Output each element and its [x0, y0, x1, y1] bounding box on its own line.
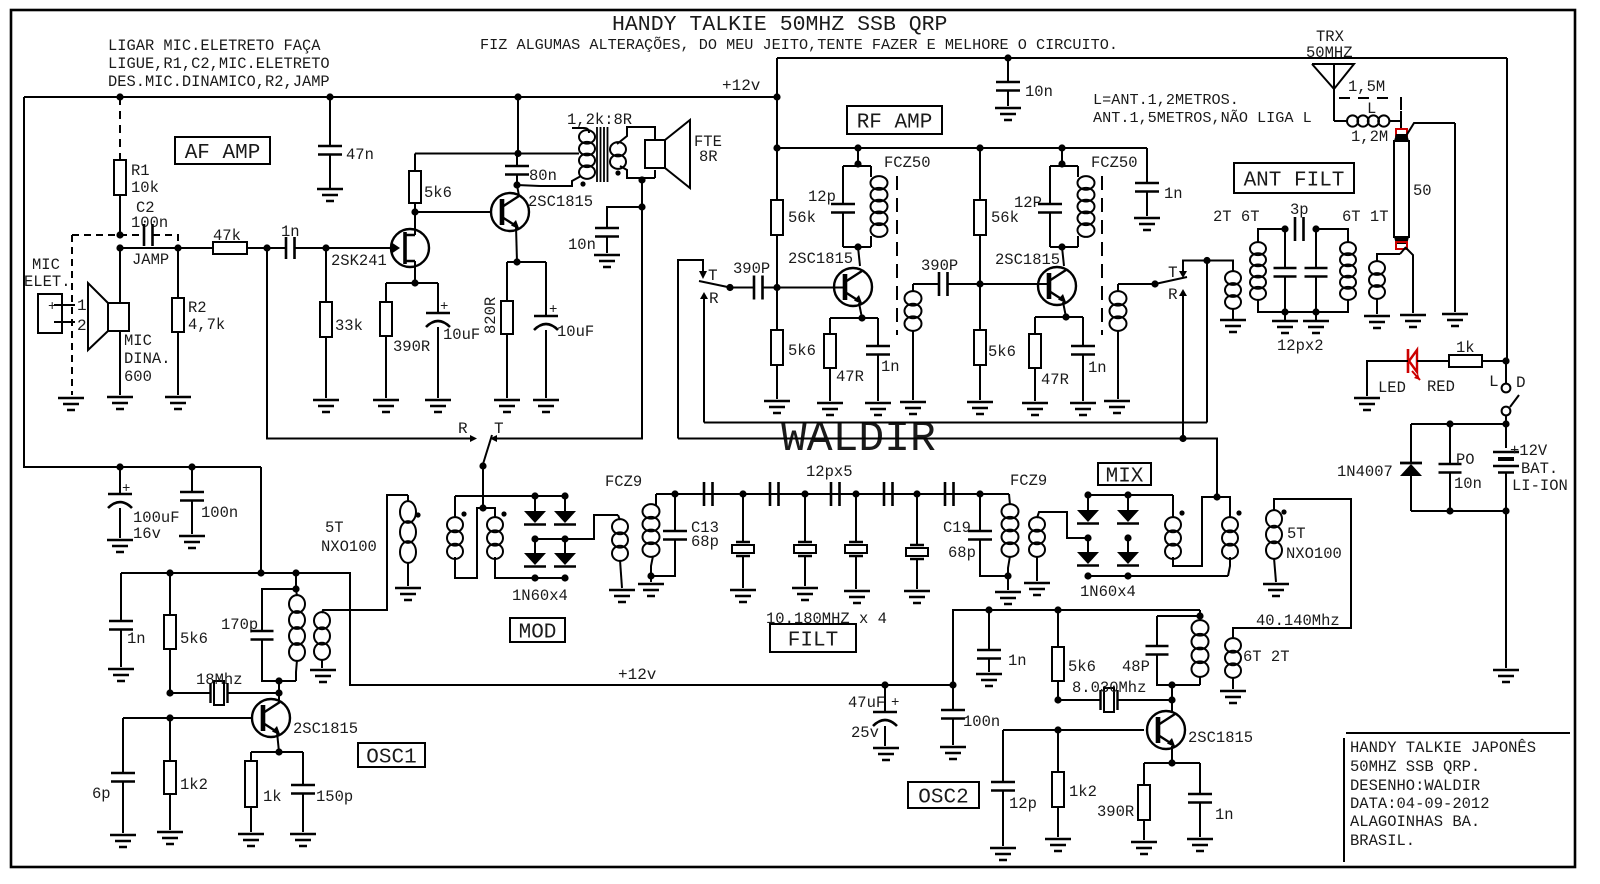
svg-text:1n: 1n [1088, 359, 1107, 377]
svg-text:AF AMP: AF AMP [185, 142, 261, 165]
svg-text:5T: 5T [1287, 525, 1306, 543]
wire emitter rail2 [1035, 316, 1083, 318]
label 10.180MHZ x 4 [766, 610, 887, 628]
label C2 [131, 199, 168, 232]
OSC1 box [358, 743, 425, 770]
capacitor 10n top [996, 54, 1053, 106]
svg-text:C19: C19 [943, 519, 971, 537]
switch S3 blade [479, 435, 492, 470]
svg-text:R: R [1168, 286, 1178, 304]
svg-text:6T 2T: 6T 2T [1243, 648, 1290, 666]
wire sec2 out [1118, 283, 1155, 285]
RF rail wire [777, 147, 1147, 149]
OSC2 tank [1146, 616, 1201, 685]
svg-text:50MHZ SSB QRP.: 50MHZ SSB QRP. [1350, 758, 1480, 776]
wire 1k right [1482, 360, 1506, 362]
svg-text:56k: 56k [788, 209, 816, 227]
diode D1 [524, 496, 546, 525]
ground 5T osc2 [1263, 584, 1289, 596]
label 12P tank2 [1014, 194, 1042, 212]
wire LED to 1k [1417, 360, 1449, 362]
ground 33k [313, 400, 339, 412]
subtitle text [480, 36, 1118, 54]
resistor 820R [501, 262, 513, 398]
svg-text:390P: 390P [921, 257, 958, 275]
node ring1 tr [561, 492, 568, 499]
RF AMP box [847, 106, 942, 135]
AF AMP box [175, 137, 270, 165]
ground 390R osc2 [1131, 842, 1157, 854]
label 6T 1T [1342, 208, 1389, 226]
node 47uF top [881, 681, 888, 688]
svg-text:1k: 1k [1456, 339, 1475, 357]
svg-text:5k6: 5k6 [788, 342, 816, 360]
node emitter AF [513, 258, 520, 265]
svg-text:1: 1 [77, 297, 87, 315]
label 2SC1815 OSC2 [1188, 729, 1253, 747]
svg-text:47R: 47R [836, 368, 864, 386]
node emitter1 [858, 314, 865, 321]
wire osc2 collector node [1171, 685, 1173, 712]
label 5T NXO100 osc1 [321, 519, 377, 556]
svg-text:ANT FILT: ANT FILT [1244, 170, 1345, 193]
svg-text:12px2: 12px2 [1277, 337, 1324, 355]
ground 6p [110, 835, 136, 847]
svg-text:4,7k: 4,7k [188, 316, 225, 334]
node drain [411, 208, 418, 215]
capacitor 1n osc1 [109, 573, 146, 667]
node fcz9-2 bottom [1004, 572, 1011, 579]
crystal X1 18Mhz [170, 671, 279, 705]
MIX ring bottom rail [1088, 575, 1228, 577]
wire S2T down [1206, 261, 1208, 423]
transistor Q1 2SK241 [391, 229, 429, 267]
label 1,2M [1351, 128, 1388, 146]
label C13 68p [691, 519, 719, 551]
node ring1 mr [561, 535, 568, 542]
ground coax bottom [1400, 315, 1426, 327]
label 1N60x4 mod [512, 587, 568, 605]
ground 820R [494, 400, 520, 412]
svg-text:100n: 100n [201, 504, 238, 522]
capacitor 390P in1 [730, 260, 777, 300]
svg-text:47k: 47k [213, 227, 241, 245]
label FCZ50 1 [884, 154, 931, 172]
node C19 top [976, 490, 983, 497]
FILT box [770, 624, 856, 653]
node osc1 rail 261 [257, 569, 264, 576]
node rail 858 [854, 144, 861, 151]
svg-text:OSC2: OSC2 [918, 787, 968, 810]
capacitor 10uF source [426, 283, 480, 398]
ground 10uF source [425, 400, 451, 412]
FCZ50 tank2 [1038, 166, 1095, 247]
ground 5k6 RF2 [967, 402, 993, 414]
transformer T1 primary [540, 128, 595, 186]
node osc2 rail 989 [985, 606, 992, 613]
svg-text:BRASIL.: BRASIL. [1350, 832, 1415, 850]
svg-text:2SK241: 2SK241 [331, 252, 387, 270]
node ring2 ml [1084, 534, 1091, 541]
ground 1k osc1 [238, 834, 264, 846]
svg-text:6p: 6p [92, 785, 111, 803]
ground sec2 [1104, 401, 1130, 413]
title block frame [1344, 733, 1570, 862]
crystal X6 8.030Mhz [1054, 679, 1172, 712]
svg-text:T: T [1168, 264, 1178, 282]
note mic wiring text [108, 37, 330, 91]
ground 2T [1220, 320, 1246, 332]
node PO bottom [1446, 507, 1453, 514]
wire collector Q4 [1062, 247, 1064, 266]
svg-text:+: + [549, 302, 557, 318]
svg-text:1,2M: 1,2M [1351, 128, 1388, 146]
node ring2 br [1124, 572, 1131, 579]
svg-text:1k2: 1k2 [180, 776, 208, 794]
label 40.140Mhz [1256, 612, 1340, 630]
resistor R1 [114, 97, 126, 235]
node JAMP top [116, 231, 123, 238]
svg-text:3p: 3p [1290, 201, 1309, 219]
wire to MIX tap [1183, 439, 1217, 498]
svg-text:DATA:04-09-2012: DATA:04-09-2012 [1350, 795, 1490, 813]
svg-text:1k: 1k [263, 788, 282, 806]
svg-text:FIZ ALGUMAS ALTERAÇÕES, DO MEU: FIZ ALGUMAS ALTERAÇÕES, DO MEU JEITO,TEN… [480, 36, 1118, 54]
switch S1 R contact [700, 290, 719, 423]
svg-text:2: 2 [77, 317, 87, 335]
node osc1 rail 296 [292, 569, 299, 576]
node rail 980 [976, 144, 983, 151]
svg-text:1N4007: 1N4007 [1337, 463, 1393, 481]
label L coil [1367, 100, 1376, 118]
wire coax bottom down [1406, 248, 1413, 313]
mic electret dashed wire [72, 235, 120, 395]
node osc2 xtal right [1168, 696, 1175, 703]
wire source [414, 261, 416, 283]
crystal X2 [732, 494, 754, 588]
ground 47R RF2 [1022, 403, 1048, 415]
svg-text:MIC: MIC [32, 256, 60, 274]
wire 777 vertical [776, 58, 778, 200]
coax top red mark [1396, 129, 1407, 136]
svg-text:1n: 1n [881, 358, 900, 376]
switch LD [1502, 361, 1519, 448]
diode 1N4007 [1400, 463, 1422, 511]
transistor Q6 2SC1815 OSC2 [1147, 711, 1185, 749]
FCZ50 sec1 coil [905, 284, 922, 400]
svg-text:390P: 390P [733, 260, 770, 278]
svg-text:L: L [1489, 373, 1499, 391]
svg-text:10n: 10n [1025, 83, 1053, 101]
svg-text:150p: 150p [316, 788, 353, 806]
wire L to coax [1400, 111, 1402, 130]
diode D5 [1077, 495, 1099, 524]
label 170p [221, 616, 258, 634]
resistor 390R osc2 [1097, 763, 1150, 840]
transformer T1 secondary [610, 127, 655, 178]
capacitor 10uF emitter [534, 262, 594, 398]
node xtal1 top [739, 490, 746, 497]
wire to TR switch [267, 248, 470, 439]
node mix tap [1213, 493, 1220, 500]
svg-text:100n: 100n [963, 713, 1000, 731]
capacitor 3p [1281, 217, 1319, 241]
node osc1 fb top [292, 585, 299, 592]
wire osc1 base [123, 717, 252, 719]
node 33k top [322, 244, 329, 251]
wire tank1 top [857, 148, 859, 166]
svg-text:1n: 1n [1164, 185, 1183, 203]
svg-text:5k6: 5k6 [1068, 658, 1096, 676]
svg-text:FCZ50: FCZ50 [884, 154, 931, 172]
MOD xfmr in winding [400, 495, 421, 586]
label 1,2k:8R [567, 111, 632, 129]
svg-text:LI-ION: LI-ION [1512, 477, 1568, 495]
svg-text:10n: 10n [1454, 475, 1482, 493]
capacitor series c1 [704, 482, 713, 506]
capacitor 1n e1 [866, 318, 900, 401]
coil 6T left [1250, 242, 1266, 300]
OSC1 xfmr secondary [314, 610, 387, 668]
node osc2 collector top [1168, 681, 1175, 688]
node osc2 rail 1058 [1054, 606, 1061, 613]
label MIC ELET [24, 256, 71, 291]
node 1k right [1502, 357, 1509, 364]
svg-text:FCZ50: FCZ50 [1091, 154, 1138, 172]
svg-text:DINA.: DINA. [124, 350, 171, 368]
wire R line [704, 422, 1207, 424]
switch S2 R contact [1168, 286, 1187, 439]
svg-text:50MHZ: 50MHZ [1306, 44, 1353, 62]
svg-text:D: D [1516, 374, 1526, 392]
svg-text:10n: 10n [568, 236, 596, 254]
label 2SC1815 OSC1 [293, 720, 358, 738]
node osc1 xtal node [275, 689, 282, 696]
ground R2 [165, 397, 191, 409]
svg-text:5k6: 5k6 [180, 630, 208, 648]
wire osc2 base [1003, 729, 1144, 731]
ground 10uF emitter [533, 400, 559, 412]
resistor 47R RF2 [1029, 317, 1069, 401]
transistor Q4 2SC1815 RF2 [1038, 267, 1076, 305]
svg-text:12px5: 12px5 [806, 463, 853, 481]
svg-text:+12v: +12v [618, 666, 657, 684]
FILT rail wire [656, 493, 1009, 495]
ground 1n osc2e [1187, 839, 1213, 851]
svg-text:1k2: 1k2 [1069, 783, 1097, 801]
ground mod in [395, 588, 421, 600]
resistor 47R RF1 [824, 318, 864, 401]
svg-text:NXO100: NXO100 [1286, 545, 1342, 563]
svg-text:LIGUE,R1,C2,MIC.ELETRETO: LIGUE,R1,C2,MIC.ELETRETO [108, 55, 330, 73]
coil 5T NXO100 osc2 [1266, 509, 1287, 582]
ground fcz9-1 pri [609, 590, 635, 602]
ground X3 [792, 588, 818, 600]
capacitor 1n osc2 [977, 610, 1027, 672]
ground 6T 2T [1220, 691, 1246, 703]
wire mod tap [482, 466, 484, 508]
label 48P [1122, 658, 1150, 676]
transistor Q5 2SC1815 OSC1 [252, 699, 290, 737]
node primary bottom [580, 181, 585, 186]
node ring1 bl [531, 574, 538, 581]
svg-text:HANDY TALKIE 50MHZ SSB QRP: HANDY TALKIE 50MHZ SSB QRP [612, 13, 947, 37]
svg-text:390R: 390R [393, 338, 430, 356]
wire emitter rail1 [830, 317, 878, 319]
wire osc1 emitter [277, 732, 279, 752]
+12v rail wire [24, 77, 777, 97]
capacitor C19 68p [968, 494, 1008, 576]
ground tank cap1 [1272, 312, 1298, 333]
svg-text:FCZ9: FCZ9 [1010, 472, 1047, 490]
wire osc2 emitter [1171, 746, 1173, 762]
svg-text:JAMP: JAMP [132, 251, 169, 269]
ground X2 [730, 590, 756, 602]
svg-text:600: 600 [124, 368, 152, 386]
ground 1k2 osc2 [1045, 839, 1071, 851]
ground mic dina [107, 397, 133, 409]
ground fcz9-1 sec [638, 576, 664, 596]
wire primary-collector [517, 185, 540, 186]
capacitor 6p [92, 718, 135, 833]
svg-text:+12V: +12V [1510, 442, 1548, 460]
svg-text:FILT: FILT [788, 630, 838, 653]
capacitor series c5 [945, 482, 954, 506]
svg-text:2T 6T: 2T 6T [1213, 208, 1260, 226]
label FTE 8R [694, 133, 722, 166]
ground 1k2 osc1 [157, 832, 183, 844]
svg-text:MOD: MOD [519, 622, 557, 645]
crystal X5 [906, 494, 928, 589]
wire collector Q3 [858, 247, 860, 266]
MOD ring mid rail [535, 515, 618, 539]
svg-text:FCZ9: FCZ9 [605, 473, 642, 491]
node fcz9-1 bottom [647, 572, 654, 579]
svg-text:2SC1815: 2SC1815 [293, 720, 358, 738]
ground mic elet [58, 398, 84, 410]
ground 5k6 RF1 [764, 401, 790, 413]
+12v bottom rail [350, 666, 953, 685]
svg-text:50: 50 [1413, 182, 1432, 200]
watermark WALDIR [781, 414, 936, 463]
label 2SC1815 RF2 [995, 251, 1060, 269]
node base1 [773, 284, 780, 291]
svg-text:1N60x4: 1N60x4 [512, 587, 568, 605]
svg-text:1,2k:8R: 1,2k:8R [567, 111, 632, 129]
ground X5 [904, 591, 930, 603]
node 18mhz left [166, 689, 173, 696]
node ring2 bl [1084, 572, 1091, 579]
OSC1 xfmr primary [289, 589, 305, 681]
node rail 1062 [1058, 144, 1065, 151]
svg-text:820R: 820R [482, 297, 500, 334]
label PO 10n [1454, 451, 1482, 493]
node tank2 top [1058, 160, 1065, 167]
svg-text:NXO100: NXO100 [321, 538, 377, 556]
node osc2 emitter [1168, 759, 1175, 766]
coil 2T [1225, 271, 1241, 319]
svg-text:100n: 100n [131, 214, 168, 232]
diode D6 [1077, 538, 1099, 566]
capacitor 1n e2 [1071, 317, 1107, 401]
node osc1 emitter [275, 748, 282, 755]
diode D8 [1117, 538, 1139, 566]
wire osc1 emitter rail [251, 751, 303, 753]
wire base AF [415, 211, 492, 213]
svg-text:10uF: 10uF [443, 326, 480, 344]
wire emitter2 [1063, 302, 1066, 317]
capacitor series c3 [831, 482, 840, 506]
capacitor series c4 [884, 482, 893, 506]
svg-text:25v: 25v [851, 724, 879, 742]
wire diode rail top [1411, 424, 1506, 462]
ground 1n e1 [865, 403, 891, 415]
capacitor C13 68p [651, 494, 687, 576]
node battery bottom [1502, 507, 1509, 514]
coax top cap [1394, 134, 1409, 141]
wire drain [414, 212, 416, 235]
wire TRX top [777, 57, 1507, 59]
capacitor tank cap2 [1305, 229, 1328, 316]
label R1 [131, 162, 159, 197]
OSC1 tank [251, 589, 297, 681]
node S2 T [1203, 257, 1210, 264]
node JAMP [116, 244, 123, 251]
diode D4 [554, 539, 576, 567]
wire LED left [1367, 361, 1408, 396]
wire tank2 top [1061, 148, 1063, 166]
wire source node [386, 282, 438, 284]
ground sec1 [900, 402, 926, 414]
svg-text:+: + [891, 695, 899, 711]
node xtal4 top [913, 490, 920, 497]
node at R1 top [116, 93, 123, 100]
svg-text:12P: 12P [1014, 194, 1042, 212]
coil L antenna [1334, 115, 1401, 126]
node rail 777 [773, 144, 780, 151]
node tank1 bottom [854, 243, 861, 250]
ground LED [1354, 398, 1380, 410]
label FCZ50 2 [1091, 154, 1138, 172]
wire base2 [980, 283, 1047, 285]
label C19 68p [943, 519, 976, 562]
svg-text:MIX: MIX [1106, 466, 1144, 489]
wire supply to OSC1 [260, 467, 262, 573]
node PO top [1446, 420, 1453, 427]
capacitor 1n rail end [1135, 148, 1183, 216]
ground 150p [290, 834, 316, 846]
capacitor 100n osc2 [941, 685, 1000, 745]
svg-text:BAT.: BAT. [1521, 460, 1558, 478]
label 820R [482, 297, 500, 334]
resistor 33k [320, 248, 363, 398]
resistor 1k power [1449, 339, 1482, 367]
node battery top [1502, 420, 1509, 427]
FCZ50 core dashed 2 [1101, 176, 1103, 335]
wire left supply [24, 97, 261, 467]
label 390R AF [393, 338, 430, 356]
node 10n AF [638, 203, 645, 210]
MIX xfmr out L [1165, 495, 1217, 566]
ground 47R RF1 [817, 403, 843, 415]
title text [612, 13, 947, 37]
coil 6T 2T [1225, 638, 1241, 689]
resistor 1k2 osc1 [164, 718, 208, 830]
wire emitter AF [516, 226, 517, 262]
svg-text:8R: 8R [699, 148, 718, 166]
node ring1 ml [531, 535, 538, 542]
ground 47n [317, 189, 343, 201]
